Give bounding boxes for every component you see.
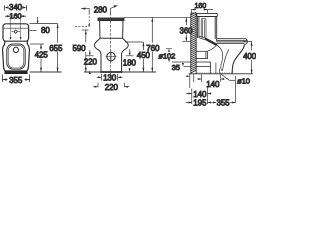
- dimension 130: [97, 74, 123, 81]
- svg-text:140: 140: [193, 90, 207, 99]
- svg-text:355: 355: [9, 76, 23, 85]
- outlet circle rear view: [107, 52, 115, 60]
- svg-text:400: 400: [243, 52, 256, 61]
- dimension 140 row2: [186, 87, 211, 105]
- dimension 160 (wall to cistern): [191, 10, 213, 16]
- dimension 360: [182, 17, 191, 41]
- dimension 35: [172, 62, 191, 67]
- dimension 450: [125, 42, 143, 72]
- dimension 220 bottom: [93, 83, 129, 87]
- svg-text:655: 655: [49, 44, 63, 53]
- dimension 590: [82, 30, 89, 72]
- dimension dia 102: [166, 47, 172, 49]
- svg-text:220: 220: [105, 83, 119, 92]
- cistern front view: [3, 24, 29, 41]
- dimension 160: [5, 15, 26, 17]
- dimension 80: [30, 17, 58, 31]
- outlet pipe to wall: [196, 51, 207, 58]
- cistern side section: [197, 13, 218, 41]
- cistern lid rear view: [98, 18, 124, 21]
- hidden inlet reference dashed L: [75, 9, 89, 26]
- inlet circle front view: [13, 47, 18, 52]
- wall lines below ground: [190, 74, 194, 88]
- svg-text:160: 160: [194, 1, 206, 10]
- svg-text:355: 355: [216, 99, 230, 108]
- dimension 280: [81, 6, 116, 14]
- flush mechanism: [201, 18, 206, 37]
- ground hatch texture: [197, 72, 233, 74]
- leader dia 10: [221, 74, 235, 80]
- dimension 180 height: [126, 49, 133, 56]
- svg-text:160: 160: [9, 12, 21, 21]
- svg-text:140: 140: [206, 80, 220, 89]
- base shadow: [5, 70, 28, 74]
- top reference line: [124, 16, 191, 18]
- svg-text:80: 80: [41, 26, 50, 35]
- dimension 340: [4, 5, 26, 10]
- wall: [191, 13, 196, 74]
- bowl outer outline front view: [3, 41, 30, 73]
- foot block lines: [196, 62, 210, 74]
- svg-text:35: 35: [172, 63, 180, 72]
- dimension 220 height: [86, 50, 93, 56]
- svg-text:280: 280: [94, 5, 108, 14]
- bowl front outline: [232, 45, 244, 74]
- svg-text:ø10: ø10: [237, 76, 250, 85]
- dimension 400: [243, 42, 252, 74]
- dimension 140 row1: [197, 75, 224, 83]
- ground line left figure: [30, 71, 62, 73]
- dimension 355 right: [213, 76, 235, 103]
- svg-text:130: 130: [103, 73, 117, 82]
- svg-text:220: 220: [84, 57, 98, 66]
- svg-text:590: 590: [72, 44, 86, 53]
- centerline dashed: [109, 13, 111, 76]
- dimension 760: [151, 17, 153, 71]
- bowl shoulders rear view: [94, 38, 128, 71]
- tank bottom / flush channel: [199, 36, 217, 45]
- cistern lid seam: [4, 27, 28, 29]
- base line rear view: [100, 71, 122, 73]
- svg-text:180: 180: [123, 59, 137, 68]
- ground line right figure: [189, 73, 253, 75]
- dimension 425: [30, 44, 44, 72]
- wall hatching: [191, 12, 196, 73]
- svg-text:195: 195: [193, 99, 207, 108]
- dimension 655: [57, 24, 59, 72]
- flush valve diamond: [12, 30, 20, 33]
- dimension 355: [2, 75, 29, 83]
- svg-text:ø102: ø102: [158, 51, 175, 60]
- dimension 195: [186, 102, 213, 104]
- bowl interior / trap: [208, 45, 229, 74]
- small arrow below wall: [186, 75, 188, 77]
- bowl rim outer: [7, 44, 25, 69]
- extension lines 160 into cistern: [11, 13, 21, 39]
- cistern body rear view: [100, 21, 123, 39]
- svg-text:450: 450: [137, 51, 151, 60]
- bowl rim inner: [8, 45, 24, 68]
- seat and lid lines: [217, 38, 248, 44]
- svg-text:425: 425: [35, 51, 49, 60]
- ground line middle figure: [84, 71, 156, 73]
